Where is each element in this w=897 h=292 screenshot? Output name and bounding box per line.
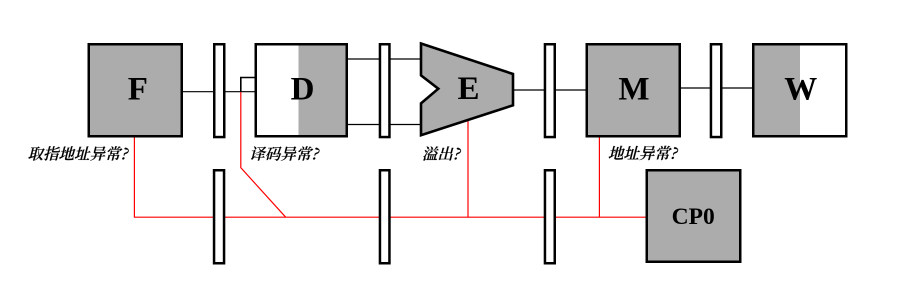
wire E to M (through EM bar) [513, 89, 586, 91]
svg-text:F: F [128, 71, 148, 107]
wire: address exception from M down to bus [598, 137, 600, 218]
wire: overflow exception from E down to bus [467, 118, 469, 217]
label: decode exception? [249, 146, 320, 160]
exception pipeline register 2 [380, 170, 390, 263]
node: input stub notch at D [241, 78, 255, 92]
stage box F (fetch) [89, 44, 182, 136]
pipeline register M/W [711, 44, 721, 137]
coprocessor box CP0 [647, 170, 741, 262]
svg-text:W: W [784, 71, 817, 107]
stage box W (writeback), left half shaded [753, 44, 800, 136]
wire F to D (through FD bar) [183, 91, 255, 93]
wire M to W (through MW bar) [681, 87, 752, 89]
wire: decode exception from D input down to bus [241, 92, 286, 217]
exception pipeline register 3 [545, 170, 555, 263]
stage box D (decode), right half shaded [299, 44, 347, 136]
pipeline register D/E [380, 44, 390, 137]
stage E (execute) ALU polygon [421, 44, 513, 136]
label: fetch address exception? [28, 146, 130, 160]
stage box M (memory) [587, 44, 680, 136]
svg-text:D: D [291, 71, 315, 107]
label: overflow? [422, 146, 462, 160]
svg-text:E: E [457, 71, 479, 107]
wire D to E lower (through DE bar) [348, 124, 421, 126]
exception pipeline register 1 [214, 170, 224, 263]
svg-text:CP0: CP0 [672, 204, 715, 230]
pipeline register F/D [214, 44, 224, 137]
wire D to E upper (through DE bar) [348, 58, 421, 60]
label: address exception? [608, 146, 679, 160]
pipeline register E/M [545, 44, 555, 137]
svg-text:M: M [618, 71, 649, 107]
wire: fetch exception from F down and bus to CP0 [134, 137, 645, 217]
